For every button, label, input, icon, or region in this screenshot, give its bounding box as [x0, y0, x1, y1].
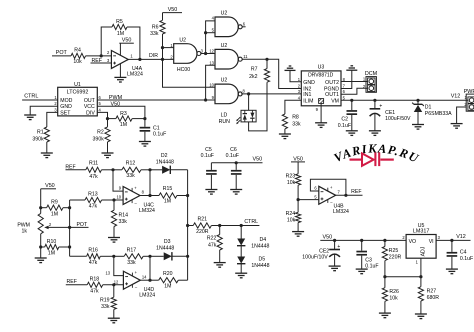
svg-text:D1: D1 — [425, 104, 432, 110]
svg-text:R8: R8 — [292, 115, 299, 121]
ground at R26 — [379, 312, 391, 314]
wire ILIM to R8 — [285, 100, 301, 114]
svg-text:R21: R21 — [198, 216, 208, 222]
svg-text:R12: R12 — [126, 161, 136, 167]
wire V50 to R23 — [297, 162, 299, 174]
op-amp U4C LM324 — [123, 187, 140, 205]
wire R13 POT to U4C pin10 — [70, 199, 85, 201]
junction R13/R14 — [112, 198, 115, 201]
wire R14 to ground — [113, 227, 115, 238]
resistor R8 33k — [282, 114, 287, 129]
ground at pot — [35, 257, 47, 259]
svg-text:LM324: LM324 — [127, 71, 143, 77]
ground at PWR — [451, 123, 463, 125]
wire LED top to pin8 node — [248, 94, 250, 110]
junction R4/R5/U4A-in — [100, 54, 103, 57]
wire VCC to R3/C1 node — [97, 106, 145, 118]
svg-text:U2: U2 — [221, 43, 228, 49]
wire ADJ stub — [420, 258, 422, 277]
svg-text:CTRL: CTRL — [244, 219, 258, 225]
svg-text:D5: D5 — [259, 256, 266, 262]
svg-text:R2: R2 — [97, 129, 104, 135]
resistor R15 1M — [150, 195, 159, 197]
resistor R6 33k — [160, 20, 165, 34]
svg-text:U3: U3 — [318, 64, 325, 70]
wire R13 to pin10 — [102, 199, 124, 201]
svg-text:10k: 10k — [287, 180, 296, 186]
wire junction to U4B pin5 — [298, 199, 319, 201]
wire to gate B tied inputs — [206, 21, 215, 54]
svg-text:+: + — [337, 244, 340, 250]
svg-text:47k: 47k — [90, 288, 99, 294]
svg-text:1N4448: 1N4448 — [156, 245, 174, 251]
svg-text:R15: R15 — [163, 186, 173, 192]
svg-text:R1: R1 — [37, 129, 44, 135]
ground above PGND — [346, 69, 357, 71]
resistor R26 10k — [384, 277, 386, 288]
wire R1 to ground — [46, 142, 48, 153]
svg-text:220R: 220R — [196, 229, 209, 235]
junction pin 5 tap — [204, 31, 207, 34]
wire U4A output to DIR / gate A pin2 — [128, 58, 173, 60]
junction LED top — [247, 92, 250, 95]
op-amp U4A LM324 — [111, 50, 128, 68]
wire gate C output to U3 IN2 — [242, 59, 301, 88]
svg-text:R4: R4 — [74, 48, 81, 54]
svg-text:1M: 1M — [48, 251, 55, 257]
svg-text:LM324: LM324 — [139, 208, 155, 214]
wire R19 to ground — [113, 309, 115, 318]
svg-text:GND: GND — [60, 104, 72, 110]
logo varicap diode symbol — [350, 159, 363, 161]
svg-text:390k: 390k — [93, 136, 105, 142]
junction C4 — [450, 239, 453, 242]
svg-text:OUT2: OUT2 — [325, 80, 339, 86]
wire R8 to ground — [284, 129, 286, 134]
ground at C5 — [205, 189, 217, 191]
ground at R24 — [292, 231, 304, 233]
junction R23/R24/pin5 — [297, 198, 300, 201]
svg-text:33k: 33k — [119, 219, 128, 225]
wire R18 to pin12 — [103, 284, 124, 286]
nand gate U2A HC00 — [174, 44, 197, 64]
svg-text:R14: R14 — [119, 212, 129, 218]
ground at C2 — [346, 130, 358, 132]
svg-text:0.1uF: 0.1uF — [460, 256, 473, 262]
junction DIR vertical — [161, 58, 164, 61]
svg-text:U2: U2 — [221, 11, 228, 17]
ground at D5 — [235, 272, 247, 274]
junction C3 — [360, 239, 363, 242]
capacitor CE1 100uF/50V polarized — [374, 100, 376, 109]
resistor R23 10k — [296, 174, 301, 185]
oscillator U1 LTC6992 — [58, 87, 98, 116]
wire R17 to output node — [143, 255, 150, 257]
svg-text:CE1: CE1 — [385, 110, 395, 116]
junction C2 — [350, 99, 353, 102]
svg-text:DCM: DCM — [365, 71, 378, 77]
ground at R14 — [108, 237, 120, 239]
svg-text:C5: C5 — [205, 147, 212, 153]
svg-text:DIR: DIR — [149, 53, 158, 59]
wire R11 to junction — [102, 169, 114, 171]
wire U4D out — [140, 279, 150, 281]
connector PWR — [466, 94, 474, 111]
resistor R22 47k — [219, 226, 221, 235]
resistor R9 1M — [41, 207, 47, 209]
junction DIV/R2/R3 — [106, 117, 109, 120]
wire R6 to gate inputs (DIR node vertical) — [163, 34, 216, 87]
resistor R13 47k — [85, 197, 102, 202]
potentiometer PWM 1k — [40, 208, 42, 214]
svg-text:0.1uF: 0.1uF — [338, 123, 351, 129]
wire SET to R1 — [47, 112, 58, 127]
wire vert D2node — [149, 170, 151, 196]
op-amp U4B LM324 — [319, 186, 336, 204]
ground at pad — [315, 122, 327, 124]
LED LD RUN (dual bicolor) — [241, 110, 256, 122]
wire PWM U1 OUT to gates — [97, 99, 215, 101]
wire VI to V12 — [436, 239, 470, 241]
wire vert D3node — [149, 256, 151, 280]
svg-text:LM324: LM324 — [333, 209, 349, 215]
svg-text:220R: 220R — [389, 254, 402, 260]
wire OUT1 to DCM pin2 — [341, 88, 368, 94]
ground at CE1 — [369, 130, 381, 132]
junction R22 top — [218, 224, 221, 227]
wire pot bottom — [40, 234, 42, 258]
svg-text:33k: 33k — [292, 122, 301, 128]
wire R24 to ground — [297, 223, 299, 232]
svg-text:LM317: LM317 — [413, 229, 429, 235]
wire V50 to R9/pot — [40, 189, 42, 208]
svg-text:CE2: CE2 — [319, 248, 329, 254]
junction R11/R12/U4C pin9 — [111, 168, 114, 171]
junction CE1 — [373, 99, 376, 102]
junction R17/D3/out vert — [148, 255, 151, 258]
svg-text:R19: R19 — [100, 298, 110, 304]
svg-text:V50: V50 — [253, 156, 263, 162]
resistor R3 1M — [108, 118, 116, 120]
wire feedback loop U4A — [101, 27, 112, 56]
op-amp U4D LM324 — [123, 271, 140, 289]
svg-text:V50: V50 — [323, 235, 333, 241]
svg-text:1N4448: 1N4448 — [251, 244, 269, 250]
wire to gate A pin 1 — [163, 47, 174, 49]
svg-text:LD: LD — [221, 112, 228, 118]
wire R12 to output node — [141, 169, 150, 171]
svg-text:RUN: RUN — [219, 119, 230, 125]
svg-text:R6: R6 — [152, 24, 159, 30]
wire R5 to output — [127, 27, 140, 59]
svg-text:OUT1: OUT1 — [325, 92, 339, 98]
svg-text:HC00: HC00 — [177, 67, 190, 73]
junction R25/R26/ADJ — [383, 275, 386, 278]
wire POT node vertical — [69, 200, 71, 256]
wire pad to ground — [320, 103, 322, 122]
wire gate A output — [201, 53, 215, 55]
resistor R16 47k — [87, 254, 101, 259]
junction R9 right — [68, 206, 71, 209]
ground at C1 — [139, 141, 151, 143]
svg-text:47k: 47k — [89, 204, 98, 210]
svg-text:33k: 33k — [150, 31, 159, 37]
resistor R25 220R — [384, 240, 386, 246]
svg-text:390k: 390k — [32, 136, 44, 142]
resistor R11 47k — [86, 167, 102, 172]
svg-text:1N4448: 1N4448 — [156, 160, 174, 166]
junction CE2 — [333, 239, 336, 242]
junction C6 — [235, 161, 238, 164]
svg-text:GND: GND — [303, 80, 315, 86]
wire R16 to junction — [100, 255, 114, 257]
ground above U3 GND — [285, 69, 296, 71]
svg-text:R17: R17 — [127, 248, 137, 254]
thermal pad pin 9 — [319, 99, 324, 104]
wire gate D output to U3 IN1 — [241, 93, 301, 95]
svg-text:33k: 33k — [126, 173, 135, 179]
svg-text:10k: 10k — [287, 218, 296, 224]
junction out/R20/vert — [148, 279, 151, 282]
junction D4 top — [240, 224, 243, 227]
svg-text:U2: U2 — [179, 38, 186, 44]
nand gate U2D — [215, 84, 238, 104]
wire V50 C5 C6 — [211, 162, 262, 164]
svg-text:R27: R27 — [427, 288, 437, 294]
wire rectifier summing node vertical — [187, 170, 189, 280]
capacitor C4 0.1uF — [451, 240, 453, 252]
svg-text:DIV: DIV — [86, 110, 95, 116]
svg-text:2k2: 2k2 — [249, 74, 257, 80]
svg-text:D2: D2 — [161, 153, 168, 159]
svg-text:MOD: MOD — [60, 98, 72, 104]
svg-text:IN1: IN1 — [303, 92, 311, 98]
junction R18/R19/pin12 — [112, 283, 115, 286]
diode D3 1N4448 — [150, 255, 164, 257]
junction R10 left — [39, 245, 42, 248]
junction output/R5 — [138, 58, 141, 61]
svg-text:LM324: LM324 — [139, 292, 155, 298]
svg-text:D3: D3 — [164, 239, 171, 245]
nand gate U2C — [215, 49, 238, 69]
wire ADJ line — [385, 276, 421, 278]
resistor R21 220R — [188, 225, 194, 227]
junction R25 — [383, 239, 386, 242]
svg-text:R5: R5 — [116, 19, 123, 25]
wire D4 to D5 — [240, 246, 242, 257]
svg-text:V12: V12 — [456, 234, 466, 240]
svg-text:R16: R16 — [88, 248, 98, 254]
resistor R4 10k — [71, 53, 86, 58]
wire REF to R11 — [66, 169, 86, 171]
capacitor C2 0.1uF — [351, 100, 353, 110]
junction R21 tap — [186, 224, 189, 227]
svg-text:1M: 1M — [120, 122, 127, 128]
wire U3 GND pin to ground — [290, 70, 301, 81]
wire gate C pin 13 to PWM — [206, 65, 215, 100]
diode D4 1N4448 — [240, 226, 242, 239]
svg-text:C1: C1 — [153, 125, 160, 131]
resistor R18 47k — [87, 282, 103, 287]
wire R20 to rect node — [178, 279, 187, 281]
ground at U1 — [24, 114, 36, 116]
svg-text:12: 12 — [209, 49, 214, 54]
wire gate B output stub — [242, 26, 245, 28]
junction output/feedback — [344, 194, 347, 197]
junction D1 — [416, 99, 419, 102]
junction ADJ/R27 — [419, 275, 422, 278]
svg-text:0.1uF: 0.1uF — [153, 132, 166, 138]
junction gate A out / pin 12 / tied 4,5 — [204, 52, 207, 55]
junction D3 tap — [186, 255, 189, 258]
junction R7 top — [265, 58, 268, 61]
svg-text:R7: R7 — [251, 67, 258, 73]
wire U4B output REF — [336, 194, 363, 196]
wire R7 to LED bottom — [249, 82, 267, 131]
svg-text:47k: 47k — [89, 260, 98, 266]
svg-text:R10: R10 — [47, 239, 57, 245]
resistor R17 33k (feedback) — [114, 255, 124, 257]
svg-text:ILIM: ILIM — [303, 98, 313, 104]
ground at C4 — [446, 268, 458, 270]
pot wiper arrow pin 2 — [44, 226, 48, 230]
wire DIV to R3/R2 node — [97, 112, 107, 118]
svg-text:DRV8871D: DRV8871D — [308, 72, 334, 78]
diode D1 P6SMB33A TVS — [417, 100, 419, 104]
svg-text:10k: 10k — [73, 59, 82, 65]
capacitor C6 0.1uF — [235, 163, 237, 170]
wire PGND to ground — [341, 70, 352, 88]
diode D5 1N4448 — [237, 257, 245, 264]
svg-text:R25: R25 — [389, 248, 399, 254]
ground at U4A — [119, 64, 121, 78]
svg-text:1M: 1M — [164, 199, 171, 205]
junction R15/rect node — [186, 194, 189, 197]
svg-text:+: + — [379, 104, 382, 110]
wire OUT2 to DCM pin1 — [341, 81, 368, 83]
svg-text:ADJ: ADJ — [421, 246, 427, 256]
capacitor CE2 100uF/10V polarized — [334, 240, 336, 249]
svg-text:VO: VO — [409, 239, 417, 245]
svg-text:OUT: OUT — [84, 98, 96, 104]
junction R12/D2/output — [148, 168, 151, 171]
junction wiper POT node — [68, 226, 71, 229]
connector DCM — [366, 77, 376, 93]
svg-text:1M: 1M — [51, 211, 58, 217]
svg-text:R11: R11 — [89, 161, 98, 167]
svg-text:R24: R24 — [286, 211, 296, 217]
resistor R2 390k — [107, 119, 109, 127]
wire V50 to R6 — [162, 13, 164, 21]
svg-text:14: 14 — [142, 274, 147, 279]
svg-text:680R: 680R — [427, 295, 440, 301]
junction R10 right — [68, 245, 71, 248]
wire R9 to POT node — [63, 207, 70, 209]
svg-text:REF: REF — [351, 189, 361, 195]
svg-text:33k: 33k — [101, 304, 110, 310]
resistor R14 33k — [113, 200, 115, 210]
svg-text:C6: C6 — [230, 147, 237, 153]
resistor R19 33k — [113, 285, 115, 297]
resistor R5 1M (feedback) — [112, 24, 127, 29]
svg-text:P6SMB33A: P6SMB33A — [425, 111, 452, 117]
ground at R2 — [102, 152, 114, 154]
wire REF to R18 — [66, 284, 87, 286]
svg-text:47k: 47k — [208, 242, 217, 248]
wire R4 to U4A pin2 — [86, 55, 112, 57]
wire R22 to ground — [219, 250, 221, 263]
svg-text:0.1uF: 0.1uF — [226, 153, 239, 159]
svg-text:U2: U2 — [221, 78, 228, 84]
svg-text:VM: VM — [331, 98, 339, 104]
svg-text:C2: C2 — [341, 117, 348, 123]
wire U1 GND to ground — [30, 106, 58, 115]
capacitor C3 0.1uF — [361, 240, 363, 250]
wire U4C out — [140, 195, 150, 197]
driver U3 DRV8871D — [301, 71, 341, 106]
ground at R19 — [108, 317, 120, 319]
resistor R10 1M — [41, 246, 45, 248]
svg-text:10k: 10k — [389, 296, 398, 302]
svg-text:100uF/10V: 100uF/10V — [302, 255, 328, 261]
ground at CE2 — [329, 265, 341, 267]
svg-text:C4: C4 — [460, 249, 467, 255]
svg-text:U1: U1 — [74, 82, 81, 88]
wire R26 to ground — [384, 301, 386, 313]
wire POT node to R16 — [70, 255, 87, 257]
junction R6/pin1 — [161, 46, 164, 49]
ground at R22 — [214, 262, 226, 264]
wire R25 to ADJ node — [384, 261, 386, 277]
svg-text:D4: D4 — [260, 237, 267, 243]
wire pin9 drop — [113, 170, 123, 191]
junction R9 left / pot top — [39, 206, 42, 209]
wire pin13 drop — [114, 256, 124, 275]
resistor R27 680R — [420, 277, 422, 287]
resistor R1 390k — [44, 127, 49, 142]
nand gate U2B — [215, 17, 238, 37]
svg-text:1M: 1M — [164, 283, 171, 289]
wire POT to R4 — [52, 55, 71, 57]
wire D5 to ground — [240, 264, 242, 273]
diode D2 1N4448 — [150, 169, 162, 171]
svg-text:1M: 1M — [117, 31, 124, 37]
junction R3/C1/VCC — [143, 117, 146, 120]
capacitor C1 0.1uF — [144, 119, 146, 127]
svg-text:10: 10 — [209, 83, 214, 88]
svg-text:R13: R13 — [88, 191, 98, 197]
svg-text:13: 13 — [105, 270, 110, 275]
svg-text:13: 13 — [209, 60, 214, 65]
svg-text:1N4448: 1N4448 — [251, 263, 269, 269]
wire PWR pin2 to ground — [457, 107, 467, 124]
junction out/R15/vert — [148, 194, 151, 197]
ground at R8 — [279, 133, 291, 135]
wire R23 to junction — [297, 185, 299, 199]
svg-text:R18: R18 — [90, 276, 100, 282]
ground at R27 — [415, 313, 427, 315]
junction R16/R17/pin13 — [112, 255, 115, 258]
svg-text:R26: R26 — [389, 289, 399, 295]
wire R27 to ground — [420, 301, 422, 314]
svg-text:R22: R22 — [207, 235, 217, 241]
wire R10 to POT node — [59, 246, 70, 248]
svg-text:33k: 33k — [127, 260, 136, 266]
resistor R20 1M — [150, 279, 159, 281]
svg-text:VCC: VCC — [84, 104, 95, 110]
svg-text:CTRL: CTRL — [24, 93, 38, 99]
wire CTRL to MOD — [22, 99, 58, 101]
